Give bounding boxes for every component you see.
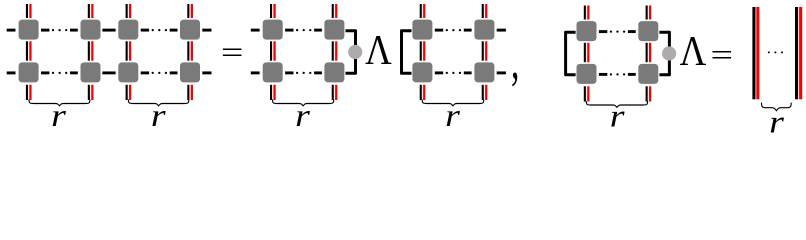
wire D1 top red leg (587, 6, 589, 20)
wire G4 c1-c2 row2 dash-a (599, 73, 607, 76)
wire dots G2 c1-c2 row1 (296, 29, 311, 31)
wire A4 bottom red leg (191, 85, 193, 100)
tensor B1 row2 (263, 62, 283, 82)
svg-text:Λ: Λ (365, 27, 392, 74)
wire A1 bottom black leg (26, 85, 28, 100)
wire C2t bottom red leg (485, 85, 487, 100)
wire C1t mid red leg (423, 41, 425, 60)
wire A4 mid red leg (191, 41, 193, 60)
wire B2 top black leg (332, 4, 334, 18)
wire A2 top black leg (88, 4, 90, 18)
bracket G4 right square bracket (659, 32, 669, 75)
wire G1 row2 leading dash (7, 71, 16, 74)
wire A3 top black leg (126, 4, 128, 18)
tensor A4 row1 (180, 20, 200, 40)
wire RHS right black leg (795, 7, 798, 99)
wire A3 top red leg (129, 4, 131, 18)
tensor C1t row2 (412, 62, 432, 82)
tensor B2 row2 (324, 62, 344, 82)
wire B1 bottom red leg (273, 85, 275, 100)
wire D1 bottom black leg (584, 86, 586, 101)
wire G1 c1-c2 row2 dash-b (70, 71, 78, 74)
tensor A3 row2 (118, 62, 138, 82)
wire B1 top black leg (270, 4, 272, 18)
wire C2t mid black leg (482, 41, 484, 60)
wire G1 c2-c3 row1 dash (102, 29, 115, 32)
wire B2 mid red leg (335, 41, 337, 60)
wire G3 row1 trailing dash (497, 29, 506, 32)
wire dots G1 c3-c4 row1 (152, 29, 168, 31)
wire B1 bottom black leg (270, 85, 272, 100)
wire D2 bottom red leg (649, 86, 651, 101)
tensor D2 row1 (638, 21, 658, 41)
wire G2 row2 leading dash (251, 71, 260, 74)
wire G1 row1 leading dash (7, 29, 16, 32)
wire G1 row1 trailing dash (202, 29, 211, 32)
bracket G2 right square bracket (346, 31, 356, 74)
tensor C2t row2 (474, 62, 494, 82)
wire G3 c1-c2 row1 dash-a (435, 29, 443, 32)
wire A2 bottom red leg (91, 85, 93, 100)
wire B2 top red leg (335, 4, 337, 18)
wire G2 c1-c2 row1 dash-a (285, 29, 293, 32)
svg-text:,: , (511, 30, 519, 90)
svg-text:r: r (51, 98, 66, 133)
wire A4 bottom black leg (187, 85, 189, 100)
wire C1t top red leg (423, 4, 425, 18)
wire A2 bottom black leg (88, 85, 90, 100)
wire A3 bottom black leg (126, 85, 128, 100)
wire A2 top red leg (91, 4, 93, 18)
brace G4 r-span (586, 102, 647, 108)
wire G2 c1-c2 row2 dash-a (285, 71, 293, 74)
wire D1 mid black leg (584, 43, 586, 62)
tensor A2 row1 (81, 20, 101, 40)
wire RHS right red leg (799, 7, 802, 99)
wire D2 bottom black leg (646, 86, 648, 101)
wire RHS left black leg (752, 7, 755, 99)
wire G1 c3-c4 row1 dash-a (141, 29, 149, 32)
wire dots G1 c1-c2 row2 (52, 72, 68, 74)
bracket G3 left square bracket (402, 31, 412, 74)
wire G1 c1-c2 row1 dash-a (41, 29, 49, 32)
tensor C2t row1 (474, 20, 494, 40)
svg-text:r: r (610, 98, 625, 133)
wire G4 c1-c2 row1 dash-b (628, 30, 636, 33)
wire G4 c1-c2 row1 dash-a (599, 30, 607, 33)
tensor D1 row1 (577, 21, 597, 41)
svg-text:r: r (295, 98, 310, 133)
wire C2t mid red leg (485, 41, 487, 60)
wire D2 top red leg (649, 6, 651, 20)
wire A1 mid red leg (29, 41, 31, 60)
brace G1 left r-span (29, 100, 90, 106)
tensor C1t row1 (412, 20, 432, 40)
wire G1 c3-c4 row2 dash-b (170, 71, 178, 74)
wire C1t bottom black leg (420, 85, 422, 100)
tensor B1 row1 (263, 20, 283, 40)
wire dots G3 c1-c2 row2 (446, 72, 462, 74)
wire D2 top black leg (646, 6, 648, 20)
wire C2t bottom black leg (482, 85, 484, 100)
wire dots G2 c1-c2 row2 (296, 72, 311, 74)
brace RHS r-span (762, 103, 792, 111)
wire D2 mid black leg (646, 43, 648, 62)
wire G1 c3-c4 row2 dash-a (141, 71, 149, 74)
wire B1 mid black leg (270, 41, 272, 60)
wire C1t top black leg (420, 4, 422, 18)
wire B2 bottom black leg (332, 85, 334, 100)
wire C1t bottom red leg (423, 85, 425, 100)
wire A4 top black leg (187, 4, 189, 18)
tensor A1 row2 (19, 62, 39, 82)
wire dots G1 c3-c4 row2 (152, 72, 168, 74)
wire A1 top black leg (26, 4, 28, 18)
wire D2 mid red leg (649, 43, 651, 62)
wire A2 mid red leg (91, 41, 93, 60)
wire G1 c1-c2 row1 dash-b (70, 29, 78, 32)
wire C2t top red leg (485, 4, 487, 18)
wire B2 bottom red leg (335, 85, 337, 100)
wire A1 top red leg (29, 4, 31, 18)
wire A3 bottom red leg (129, 85, 131, 100)
wire G1 c1-c2 row2 dash-a (41, 71, 49, 74)
wire dots G4 c1-c2 row1 (610, 30, 625, 32)
wire B1 top red leg (273, 4, 275, 18)
wire A3 mid red leg (129, 41, 131, 60)
wire dots G1 c1-c2 row1 (52, 29, 68, 31)
wire G1 c3-c4 row1 dash-b (170, 29, 178, 32)
node G2 gray circle (348, 45, 362, 59)
tensor D2 row2 (638, 64, 658, 84)
svg-text:r: r (151, 98, 166, 133)
svg-text:r: r (445, 98, 460, 133)
tensor D1 row2 (577, 64, 597, 84)
wire G1 row2 trailing dash (202, 71, 211, 74)
tensor A4 row2 (180, 62, 200, 82)
wire G4 c1-c2 row2 dash-b (628, 73, 636, 76)
wire dots RHS center (768, 51, 783, 53)
wire B1 mid red leg (273, 41, 275, 60)
wire A1 bottom red leg (29, 85, 31, 100)
wire G3 c1-c2 row2 dash-a (435, 71, 443, 74)
wire A2 mid black leg (88, 41, 90, 60)
brace G1 right r-span (128, 100, 188, 106)
wire D1 top black leg (584, 6, 586, 20)
wire G1 c2-c3 row2 dash (102, 71, 115, 74)
wire A4 mid black leg (187, 41, 189, 60)
wire C2t top black leg (482, 4, 484, 18)
svg-text:=: = (221, 36, 244, 69)
brace G3 r-span (422, 100, 484, 106)
tensor A1 row1 (19, 20, 39, 40)
wire G3 row2 trailing dash (497, 71, 506, 74)
bracket G4 left square bracket (566, 32, 576, 75)
wire D1 bottom red leg (587, 86, 589, 101)
wire A3 mid black leg (126, 41, 128, 60)
svg-text:r: r (769, 104, 784, 133)
wire A4 top red leg (191, 4, 193, 18)
wire RHS left red leg (756, 7, 759, 99)
node G4 gray circle (662, 46, 676, 60)
wire A1 mid black leg (26, 41, 28, 60)
wire G3 c1-c2 row2 dash-b (464, 71, 472, 74)
svg-text:Λ: Λ (680, 27, 707, 74)
wire C1t mid black leg (420, 41, 422, 60)
tensor A3 row1 (118, 20, 138, 40)
wire G2 c1-c2 row1 dash-b (314, 29, 322, 32)
tensor A2 row2 (81, 62, 101, 82)
wire D1 mid red leg (587, 43, 589, 62)
svg-text:=: = (711, 38, 734, 71)
brace G2 r-span (273, 100, 334, 106)
wire dots G3 c1-c2 row1 (446, 29, 462, 31)
wire G3 c1-c2 row1 dash-b (464, 29, 472, 32)
wire G2 c1-c2 row2 dash-b (314, 71, 322, 74)
wire G2 row1 leading dash (251, 29, 260, 32)
tensor B2 row1 (324, 20, 344, 40)
wire B2 mid black leg (332, 41, 334, 60)
wire dots G4 c1-c2 row2 (610, 73, 625, 75)
